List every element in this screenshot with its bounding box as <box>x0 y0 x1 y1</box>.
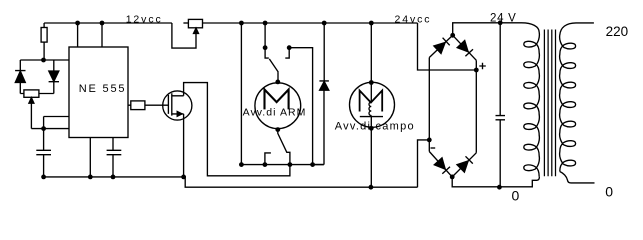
wire bridge AC bottom to transformer (0 rail) <box>452 177 539 187</box>
plus sign <box>479 63 486 69</box>
wire bottom contact row <box>241 164 323 166</box>
switch S1a top contact brackets <box>265 48 289 58</box>
wire field motor to ground <box>370 128 372 187</box>
svg-text:Avv.di campo: Avv.di campo <box>335 120 415 132</box>
junction at (429.3,139.9) <box>427 138 432 143</box>
junction at (241.4,164.6) <box>239 162 244 167</box>
junction at (264.9,164.6) <box>263 162 268 167</box>
svg-text:24vcc: 24vcc <box>395 14 432 26</box>
wire Q1 drain up and over <box>184 83 290 176</box>
junction at (312.6,164.6) <box>310 162 315 167</box>
bridge diode D5 (top right) <box>453 35 477 60</box>
wire field motor from rail <box>370 23 372 83</box>
svg-text:NE 555: NE 555 <box>79 83 127 95</box>
junction at (102,23) <box>100 21 105 26</box>
diode D3 flyback <box>313 23 329 165</box>
capacitor C3 filter <box>496 23 506 187</box>
resistor R1 <box>41 23 47 60</box>
wire 555 pin 8 to rail <box>77 23 79 47</box>
junction at (113,176.9) <box>111 175 116 180</box>
wire left vertical to bottom contacts <box>240 23 242 165</box>
switch S1b left contact bracket <box>265 153 271 165</box>
junction at (500.2,22.8) <box>498 20 503 25</box>
junction at (476.3,70) <box>474 68 479 73</box>
junction at (452.2,176.9) <box>450 175 455 180</box>
svg-text:24 V: 24 V <box>490 13 516 25</box>
junction at (183.6,176.9) <box>181 175 186 180</box>
motor M2 field <box>350 82 395 128</box>
svg-text:Avv.di ARM: Avv.di ARM <box>243 107 307 119</box>
junction at (289.2,47.7) <box>287 45 292 50</box>
bridge right side <box>475 60 477 153</box>
junction at (277.8,81.9) <box>275 80 280 85</box>
resistor R2 (gate) <box>128 101 168 110</box>
junction at (43.5,60) <box>41 58 46 63</box>
junction at (241.4,23) <box>239 21 244 26</box>
junction at (371.3,82.5) <box>369 80 374 85</box>
junction at (371.3,23) <box>369 21 374 26</box>
wire bridge AC top to transformer <box>453 23 522 36</box>
bridge left side <box>428 58 430 152</box>
potentiometer P2 <box>183 19 202 33</box>
svg-text:220: 220 <box>606 24 629 39</box>
junction dots group <box>41 20 503 189</box>
junction at (90.3,176.9) <box>88 175 93 180</box>
junction at (43.6,176.9) <box>41 175 46 180</box>
junction at (277.8,129.6) <box>275 127 280 132</box>
IC U1 NE 555 timer <box>69 47 128 138</box>
diode D2 <box>39 60 59 94</box>
wire rail jog down to P2 wiper <box>172 23 196 48</box>
capacitor C2 <box>107 138 122 177</box>
ground rail <box>44 177 418 187</box>
bridge diode D7 (bottom right) <box>452 153 476 177</box>
junction at (289.9,164.6) <box>288 162 293 167</box>
switch S1b lever <box>278 130 290 165</box>
switch S1a lever <box>269 59 278 82</box>
bridge diode D6 (bottom left) <box>429 152 452 177</box>
capacitor C1 <box>36 129 51 177</box>
junction at (324.2,23) <box>322 21 327 26</box>
svg-text:0: 0 <box>512 187 520 203</box>
junction at (370.9,187.2) <box>369 185 374 190</box>
wire 24vcc rail <box>203 22 418 24</box>
wire 12vcc top rail <box>44 22 172 24</box>
wire 555 pin 1 to ground <box>89 138 91 177</box>
junction at (43.6,128.6) <box>41 126 46 131</box>
svg-text:0: 0 <box>605 184 613 200</box>
transformer T1 primary coil <box>522 23 540 33</box>
wire bridge minus to ground rail <box>418 140 430 187</box>
junction at (452.7,35.3) <box>450 33 455 38</box>
junction at (265.1,47.7) <box>263 45 268 50</box>
wire Q1 source to ground <box>183 114 185 177</box>
wire 24vcc to bridge plus <box>418 23 477 70</box>
transistor Q1 MOSFET <box>163 91 192 120</box>
wire top switch right contact to right vertical <box>289 48 312 165</box>
diode D1 <box>15 60 25 94</box>
junction at (371.3,128.3) <box>369 126 374 131</box>
potentiometer P1 <box>24 90 39 129</box>
motor M1 armature <box>255 83 301 129</box>
wire top switch left contact from rail <box>264 23 266 48</box>
wire P1 wiper to NE555 trigger/threshold <box>31 117 69 129</box>
svg-text:12vcc: 12vcc <box>126 14 163 26</box>
wire 555 pin 4 to rail <box>101 23 103 47</box>
junction at (77.6,23) <box>75 21 80 26</box>
transformer T1 core <box>544 30 555 177</box>
junction at (499.4,187.2) <box>497 185 502 190</box>
node A wire (R1 bottom to NE555 pin 7) <box>20 59 69 61</box>
minus sign <box>431 147 436 149</box>
bridge diode D4 (top left) <box>429 35 452 57</box>
junction at (265.1,23) <box>263 21 268 26</box>
transformer T1 secondary coil <box>560 23 594 35</box>
